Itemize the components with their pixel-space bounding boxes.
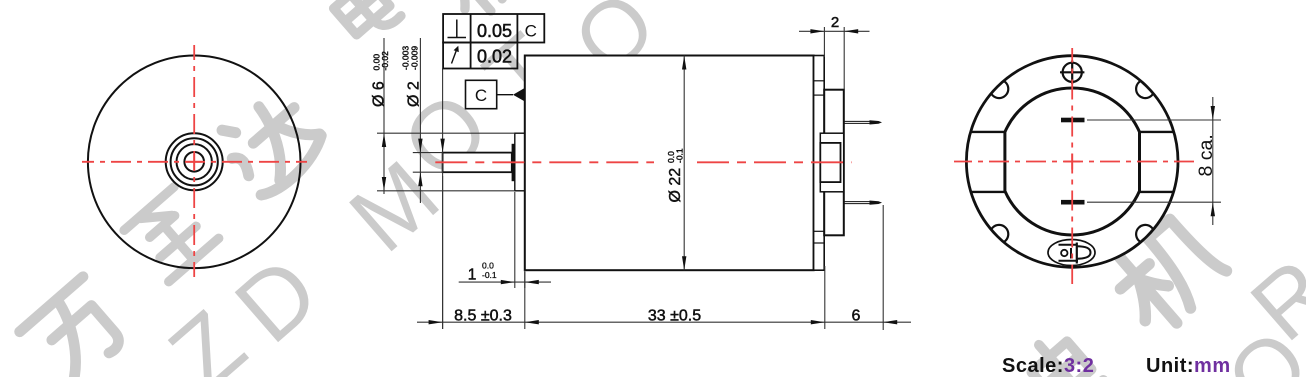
left view hub circle r23.6 (171, 138, 218, 185)
Ø2 extension lines (413, 152, 443, 154)
8ca label (1195, 134, 1217, 176)
rear view outer circle (966, 56, 1178, 268)
bottom dimension extension lines (417, 176, 911, 330)
svg-text:8 ca.: 8 ca. (1195, 134, 1217, 176)
screw head (1063, 63, 1082, 82)
svg-text:-0.009: -0.009 (409, 46, 419, 70)
logo stamp oval (1048, 240, 1095, 266)
8ca dimension line (1212, 97, 1214, 225)
watermark char 电 (right) (1021, 328, 1103, 377)
dim 33 right arrow (811, 320, 825, 324)
left view shaft circle r9.8 (184, 152, 204, 172)
left view center cross (186, 161, 202, 163)
terminal pin top (844, 121, 871, 123)
perpendicularity symbol (448, 20, 467, 38)
dimension 2 line (799, 30, 870, 32)
svg-text:Ø 2: Ø 2 (405, 81, 422, 107)
shaft retaining washer (black bar) (512, 144, 515, 181)
dim 6 right arrow (outside) (883, 320, 897, 324)
left view outer circle (88, 56, 301, 269)
dimension 2 extension lines (799, 27, 870, 89)
svg-text:Ø 6: Ø 6 (371, 81, 388, 107)
right view red centerlines (954, 161, 1194, 163)
svg-text:1: 1 (468, 267, 477, 284)
left view red centerlines (82, 45, 307, 277)
svg-text:C: C (475, 86, 487, 105)
dim 8.5 left arrow (outside) (429, 320, 443, 324)
svg-text:-0.1: -0.1 (674, 148, 684, 163)
dimension 1 extension line (514, 192, 516, 288)
shaft Ø2 (443, 153, 512, 173)
Ø2 label (400, 46, 422, 107)
datum C box (466, 80, 497, 108)
window edges right (1140, 131, 1174, 133)
svg-text:8.5 ±0.3: 8.5 ±0.3 (454, 307, 512, 324)
terminal pin bottom (844, 202, 871, 204)
svg-text:Ø 22: Ø 22 (667, 168, 684, 203)
Ø2 dimension line (419, 38, 421, 203)
right view center cross (1064, 161, 1080, 163)
svg-text:Scale:3:2: Scale:3:2 (1002, 355, 1094, 377)
watermark char 机 (right) (1101, 208, 1231, 337)
crimp notches (990, 80, 1155, 244)
svg-text:0.05: 0.05 (477, 21, 512, 41)
rear boss outer rect (820, 133, 843, 192)
svg-text:0.0: 0.0 (482, 261, 494, 271)
feature control frame row2 (443, 43, 517, 69)
runout leader arrow (440, 139, 444, 153)
pilot boss Ø6 x1 (515, 133, 525, 191)
svg-text:0.02: 0.02 (477, 47, 512, 67)
window edges left (971, 132, 1174, 192)
feature control frame row1 (443, 14, 544, 69)
left view hub circle r28.5 (166, 133, 223, 190)
rear inner circle with flats (1005, 88, 1140, 235)
datum leader line (497, 94, 513, 96)
rear end cap (824, 90, 844, 236)
left view hub circle r17.7 (177, 144, 212, 179)
rear boss inner rect (820, 143, 840, 182)
terminal slot top (1061, 118, 1085, 123)
Ø6 dimension line (383, 38, 385, 194)
runout leader / shaft end extension line (442, 69, 444, 330)
watermark char 万 (20, 277, 133, 377)
step rung lines (814, 81, 825, 243)
terminal slot bottom (1061, 200, 1085, 205)
datum triangle (513, 88, 524, 101)
watermark char 达 (212, 83, 329, 200)
svg-text:33 ±0.5: 33 ±0.5 (648, 307, 701, 324)
8ca leader lines (1087, 119, 1221, 121)
svg-text:C: C (525, 22, 537, 41)
Ø6 extension lines (377, 38, 515, 329)
Ø22 dimension line (683, 56, 685, 271)
Ø22 label (666, 148, 684, 202)
svg-text:2: 2 (831, 14, 839, 31)
middle red centerline (435, 161, 654, 163)
watermark char 电 (324, 0, 401, 46)
svg-text:-0.1: -0.1 (482, 270, 497, 280)
svg-text:Unit:mm: Unit:mm (1146, 355, 1231, 377)
logo marks (1059, 243, 1091, 264)
Ø6 label (371, 51, 391, 107)
bottom dimension line (417, 321, 911, 323)
watermark char 机 (429, 0, 536, 23)
dim 33 left arrow (525, 320, 539, 324)
Ø6 dim arrows (inside pointing out) (382, 133, 386, 147)
svg-text:6: 6 (852, 307, 861, 324)
circular runout symbol (452, 50, 457, 64)
dimension 1 line (459, 281, 551, 283)
end bell step (814, 56, 825, 271)
watermark char 至 (124, 187, 219, 282)
Ø2 dim arrows (outside pointing in) (418, 139, 422, 153)
svg-text:-0.02: -0.02 (380, 51, 390, 71)
motor body rectangle (525, 56, 814, 271)
